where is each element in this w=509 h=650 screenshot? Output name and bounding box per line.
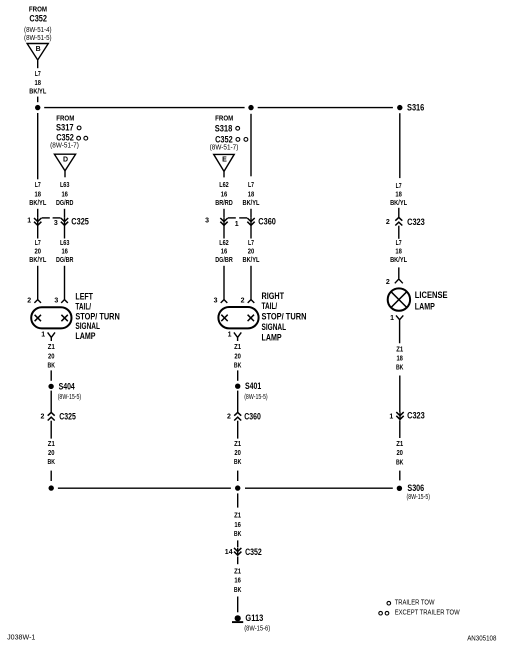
wire label L7 18 BK/YL right2 [390, 240, 408, 264]
svg-text:S317: S317 [56, 123, 74, 133]
svg-text:BK/YL: BK/YL [390, 257, 408, 264]
svg-text:16: 16 [221, 248, 228, 255]
svg-text:20: 20 [48, 353, 55, 360]
svg-text:BK/YL: BK/YL [29, 200, 47, 207]
node S316 [397, 103, 424, 113]
connector triangle E [214, 154, 235, 171]
svg-text:Z1: Z1 [234, 441, 241, 448]
svg-text:RIGHT: RIGHT [262, 291, 285, 301]
svg-text:2: 2 [386, 279, 390, 286]
svg-text:Z1: Z1 [396, 347, 403, 354]
connector C325 pins 1 and 3 [27, 217, 89, 227]
svg-text:18: 18 [248, 191, 255, 198]
svg-text:BK: BK [396, 459, 404, 466]
wire label Z1 16 BK 2 [234, 568, 242, 594]
svg-text:1: 1 [27, 217, 31, 224]
junction node bottom-left [49, 485, 54, 490]
svg-text:16: 16 [61, 248, 68, 255]
junction node top-left [35, 105, 40, 110]
svg-text:16: 16 [61, 191, 68, 198]
right lamp name [262, 291, 307, 343]
wire top bus right segment [258, 107, 393, 109]
wire right column from S316 [399, 113, 401, 178]
svg-text:18: 18 [35, 191, 42, 198]
svg-text:L63: L63 [60, 182, 70, 189]
svg-text:2: 2 [40, 413, 44, 420]
svg-text:3: 3 [54, 297, 58, 304]
wire [37, 209, 39, 218]
svg-text:C323: C323 [407, 411, 425, 421]
wire label L7 20 BK/YL [29, 240, 47, 264]
svg-text:2: 2 [241, 297, 245, 304]
connector C325 pin 2 [40, 412, 75, 422]
svg-text:C352: C352 [29, 13, 47, 23]
wire label L7 20 BK/YL mid [243, 240, 261, 264]
lamp pin 3 fork [54, 297, 67, 304]
svg-text:Z1: Z1 [48, 441, 55, 448]
wire [237, 471, 239, 481]
lamp pin 1 [41, 331, 55, 341]
svg-text:3: 3 [214, 297, 218, 304]
wire [399, 471, 401, 481]
legend except trailer tow [379, 610, 460, 617]
junction node top-middle [248, 105, 253, 110]
right lamp pin 3 fork [214, 297, 228, 304]
trailer tow marker circle (S317) [77, 126, 81, 130]
svg-text:DG/BR: DG/BR [215, 257, 233, 264]
splice S401 [235, 381, 268, 401]
wire bottom bus right segment [245, 487, 393, 489]
svg-text:18: 18 [395, 249, 402, 256]
wire label Z1 16 BK [234, 513, 242, 538]
svg-text:1: 1 [41, 331, 45, 338]
svg-text:G113: G113 [245, 613, 263, 624]
svg-text:STOP/ TURN: STOP/ TURN [262, 312, 307, 322]
svg-text:C360: C360 [244, 411, 261, 421]
svg-text:DG/RD: DG/RD [56, 200, 74, 207]
license lamp [388, 288, 410, 310]
svg-text:(8W-15-6): (8W-15-6) [244, 626, 270, 633]
svg-text:1: 1 [389, 413, 393, 420]
svg-text:16: 16 [234, 578, 241, 585]
svg-text:20: 20 [396, 450, 403, 457]
wire top bus left segment [44, 107, 244, 109]
wire [50, 471, 52, 481]
wire [237, 391, 239, 412]
wire [398, 226, 400, 239]
svg-text:BK: BK [234, 587, 242, 594]
wire [223, 209, 225, 218]
wire [50, 391, 52, 412]
wire [237, 540, 239, 547]
svg-text:BR/RD: BR/RD [215, 200, 233, 207]
except trailer tow marker circles (C352) [77, 136, 88, 140]
svg-text:BK/YL: BK/YL [29, 89, 47, 96]
wire label Z1 20 BK mid [234, 344, 242, 369]
license lamp name [415, 290, 448, 311]
svg-text:20: 20 [35, 248, 42, 255]
svg-text:C323: C323 [407, 217, 425, 227]
svg-text:LICENSE: LICENSE [415, 290, 448, 300]
svg-text:LEFT: LEFT [75, 292, 93, 302]
wire label L7 18 BK/YL [29, 71, 47, 96]
svg-text:(8W-51-5): (8W-51-5) [24, 35, 52, 42]
header FROM S318 C352 (8W-51-7) [210, 114, 239, 152]
svg-text:BK: BK [234, 363, 242, 370]
wire [37, 97, 39, 103]
connector C323 pin 2 [386, 217, 425, 227]
svg-text:S401: S401 [245, 381, 261, 391]
svg-text:TRAILER TOW: TRAILER TOW [395, 600, 435, 607]
wire [399, 376, 401, 413]
svg-text:C325: C325 [71, 217, 89, 227]
wire [50, 421, 52, 439]
wire from triangle E [223, 172, 225, 178]
wire from triangle D [64, 171, 66, 177]
svg-text:BK/YL: BK/YL [243, 200, 261, 207]
svg-text:(8W-51-7): (8W-51-7) [50, 143, 79, 150]
wire label L62 16 DG/BR [215, 240, 233, 264]
svg-text:(8W-15-5): (8W-15-5) [58, 394, 81, 401]
wire [64, 225, 66, 238]
svg-text:2: 2 [227, 413, 231, 420]
wire [237, 557, 239, 565]
svg-text:20: 20 [234, 450, 241, 457]
wire [223, 225, 225, 238]
wire [37, 266, 39, 300]
svg-text:FROM: FROM [215, 114, 233, 123]
svg-text:C352: C352 [56, 133, 74, 143]
license lamp pin 1 [390, 315, 403, 343]
svg-text:AN305108: AN305108 [467, 636, 496, 643]
junction node bottom-middle [235, 485, 240, 490]
svg-text:E: E [222, 157, 227, 164]
svg-text:S318: S318 [215, 123, 233, 133]
wire label L63 16 DG/BR [56, 240, 74, 264]
wire label L7 18 BK/YL left [29, 182, 47, 207]
svg-text:3: 3 [205, 217, 209, 224]
ground G113 [232, 613, 270, 633]
svg-text:Z1: Z1 [396, 441, 403, 448]
wire label L62 16 BR/RD [215, 182, 233, 207]
svg-text:L7: L7 [248, 240, 254, 247]
connector C352 pin 14 [225, 547, 262, 557]
svg-text:B: B [36, 46, 41, 53]
svg-text:TAIL/: TAIL/ [262, 301, 278, 311]
svg-text:1: 1 [228, 331, 232, 338]
wire [399, 420, 401, 438]
svg-text:LAMP: LAMP [415, 302, 435, 312]
wire [237, 370, 239, 380]
svg-text:1: 1 [390, 315, 394, 322]
wire [64, 266, 66, 300]
trailer tow marker circle (S318) [236, 126, 240, 130]
connector triangle B [27, 44, 48, 61]
connector C360 pins 3 and 1 [205, 217, 276, 229]
svg-text:BK/YL: BK/YL [390, 200, 408, 207]
svg-text:J038W-1: J038W-1 [7, 635, 35, 642]
license lamp pin 2 fork [386, 279, 403, 286]
except trailer tow marker circles (C352 mid) [236, 138, 248, 142]
wire [37, 225, 39, 238]
svg-text:20: 20 [248, 248, 255, 255]
svg-text:L7: L7 [35, 240, 41, 247]
svg-text:BK: BK [234, 459, 242, 466]
legend trailer tow [387, 600, 435, 607]
svg-text:S404: S404 [59, 381, 75, 391]
svg-text:S306: S306 [407, 483, 424, 493]
wire [237, 421, 239, 439]
right lamp pin 1 [228, 331, 242, 341]
svg-text:(8W-51-7): (8W-51-7) [210, 145, 239, 152]
node S306 [397, 483, 430, 501]
svg-text:L7: L7 [248, 182, 254, 189]
svg-text:S316: S316 [407, 103, 424, 113]
svg-text:2: 2 [27, 297, 31, 304]
svg-text:20: 20 [48, 450, 55, 457]
svg-text:BK/YL: BK/YL [29, 257, 47, 264]
lamp pin 2 fork [27, 297, 41, 304]
svg-text:C352: C352 [215, 134, 233, 144]
svg-text:FROM: FROM [56, 114, 74, 123]
svg-text:20: 20 [234, 353, 241, 360]
svg-text:C352: C352 [245, 547, 262, 557]
wire label L63 16 DG/RD [56, 182, 74, 207]
wire [398, 267, 400, 278]
wire label Z1 20 BK [48, 344, 56, 369]
wire left column from node [37, 113, 39, 179]
svg-text:18: 18 [35, 80, 42, 87]
left tail/stop/turn signal lamp [31, 307, 71, 328]
header FROM S317 C352 (8W-51-7) [50, 114, 79, 150]
svg-text:18: 18 [396, 356, 403, 363]
wire label Z1 20 BK right [396, 441, 404, 466]
svg-text:LAMP: LAMP [75, 331, 95, 341]
wire bottom bus left segment [58, 487, 231, 489]
svg-text:3: 3 [54, 220, 58, 227]
wire [64, 209, 66, 218]
svg-text:BK: BK [48, 363, 56, 370]
svg-text:C360: C360 [258, 217, 276, 227]
wire label Z1 20 BK mid2 [234, 441, 242, 466]
svg-text:(8W-51-4): (8W-51-4) [24, 27, 52, 34]
wire label Z1 18 BK [396, 347, 404, 372]
svg-text:L7: L7 [35, 182, 41, 189]
svg-text:FROM: FROM [29, 4, 47, 13]
connector triangle D [54, 154, 75, 171]
wire label L7 18 BK/YL right [390, 183, 408, 207]
svg-text:D: D [63, 157, 68, 164]
svg-text:16: 16 [234, 522, 241, 529]
svg-text:18: 18 [395, 192, 402, 199]
svg-text:(8W-15-5): (8W-15-5) [407, 494, 431, 501]
svg-text:16: 16 [221, 191, 228, 198]
svg-text:BK: BK [234, 531, 242, 538]
connector C360 pin 2 [227, 411, 261, 421]
svg-text:BK: BK [48, 459, 56, 466]
svg-text:L63: L63 [60, 240, 70, 247]
svg-text:TAIL/: TAIL/ [75, 301, 91, 311]
svg-text:C325: C325 [59, 412, 76, 422]
svg-text:LAMP: LAMP [262, 332, 282, 342]
svg-text:2: 2 [386, 219, 390, 226]
wire [250, 266, 252, 300]
svg-text:BK/YL: BK/YL [243, 257, 261, 264]
wire below bottom bus [237, 493, 239, 507]
wire [250, 225, 252, 238]
svg-text:EXCEPT TRAILER TOW: EXCEPT TRAILER TOW [395, 610, 460, 617]
wire label Z1 20 BK [48, 441, 56, 466]
svg-text:(8W-15-5): (8W-15-5) [244, 394, 268, 401]
splice S404 [48, 381, 81, 400]
connector C323 pin 1 [389, 411, 424, 421]
svg-text:Z1: Z1 [234, 344, 241, 351]
wire [223, 266, 225, 300]
right lamp pin 2 fork [241, 297, 255, 304]
svg-text:L7: L7 [35, 71, 41, 78]
svg-text:Z1: Z1 [234, 513, 241, 520]
svg-text:1: 1 [235, 221, 239, 228]
svg-text:SIGNAL: SIGNAL [262, 322, 287, 332]
svg-text:Z1: Z1 [234, 568, 241, 575]
header FROM C352 (8W-51-4)(8W-51-5) [24, 4, 52, 42]
svg-text:14: 14 [225, 549, 233, 556]
svg-text:SIGNAL: SIGNAL [75, 321, 100, 331]
wire [237, 597, 239, 613]
wire middle column from top bus [250, 114, 252, 177]
svg-text:BK: BK [396, 365, 404, 372]
right tail/stop/turn signal lamp [218, 307, 258, 328]
left lamp name [75, 292, 119, 342]
svg-text:DG/BR: DG/BR [56, 257, 74, 264]
svg-text:L62: L62 [219, 182, 229, 189]
svg-text:L62: L62 [219, 240, 229, 247]
svg-text:Z1: Z1 [48, 344, 55, 351]
svg-text:L7: L7 [396, 183, 402, 190]
wire [398, 208, 400, 217]
wire from triangle B [37, 60, 39, 68]
wire [50, 370, 52, 380]
svg-text:STOP/ TURN: STOP/ TURN [75, 311, 119, 321]
wire [250, 209, 252, 218]
svg-text:L7: L7 [396, 240, 402, 247]
wire label L7 18 BK/YL mid [243, 182, 261, 207]
